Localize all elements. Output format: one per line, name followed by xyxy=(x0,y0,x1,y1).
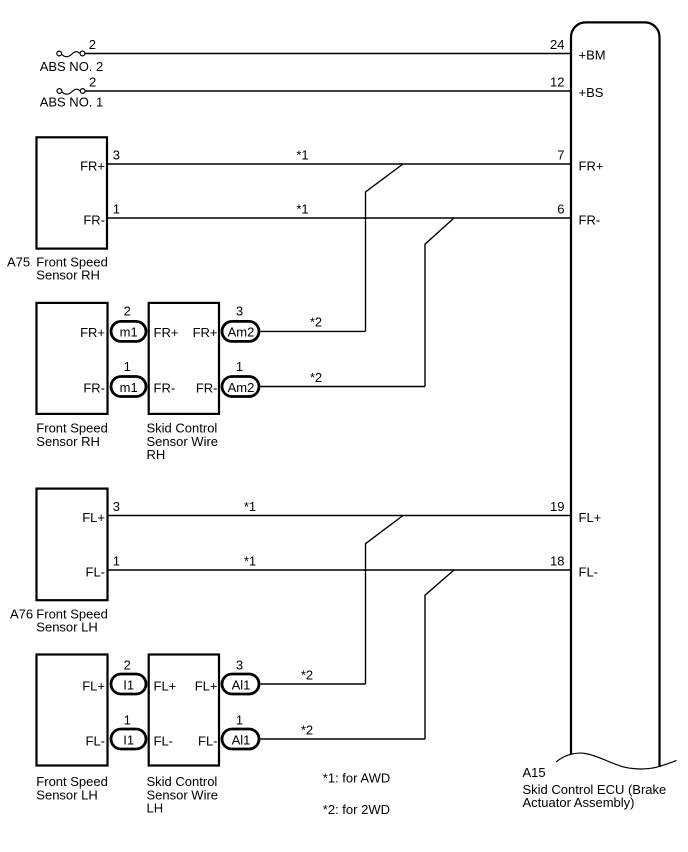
connector A75 Front Speed Sensor RH box xyxy=(37,137,108,248)
svg-text:18: 18 xyxy=(550,553,564,568)
fuse ABS NO. 1 xyxy=(57,89,85,95)
svg-text:Sensor LH: Sensor LH xyxy=(36,787,97,802)
svg-text:FR+: FR+ xyxy=(193,325,218,340)
connector Am2 (FR-) xyxy=(222,377,259,397)
wire A75 FR+ to ECU pin 7 xyxy=(108,163,570,165)
svg-text:FR-: FR- xyxy=(196,380,218,395)
svg-text:FL-: FL- xyxy=(86,733,106,748)
svg-text:3: 3 xyxy=(113,147,120,162)
svg-text:+BM: +BM xyxy=(579,48,606,63)
svg-text:3: 3 xyxy=(236,657,243,672)
svg-text:2: 2 xyxy=(124,304,131,319)
svg-text:FL+: FL+ xyxy=(579,510,602,525)
svg-text:1: 1 xyxy=(236,359,243,374)
svg-text:*1: for AWD: *1: for AWD xyxy=(323,771,390,786)
fuse ABS NO. 2 xyxy=(57,51,85,57)
svg-text:*2: *2 xyxy=(310,370,322,385)
svg-text:7: 7 xyxy=(557,147,564,162)
wire Al1 FL+ to branch node xyxy=(261,683,366,685)
svg-text:Sensor LH: Sensor LH xyxy=(36,620,97,635)
wire fuse ABS NO. 2 to ECU pin 24 (+BM) xyxy=(85,53,570,55)
svg-text:19: 19 xyxy=(550,499,564,514)
svg-text:12: 12 xyxy=(550,74,564,89)
svg-text:m1: m1 xyxy=(120,380,138,395)
svg-text:Am2: Am2 xyxy=(228,380,255,395)
svg-text:FL+: FL+ xyxy=(195,678,218,693)
svg-text:Al1: Al1 xyxy=(232,677,251,692)
svg-text:Al1: Al1 xyxy=(232,732,251,747)
svg-text:2: 2 xyxy=(124,657,131,672)
svg-text:Sensor RH: Sensor RH xyxy=(36,268,100,283)
svg-text:*2: *2 xyxy=(301,723,313,738)
svg-text:FL+: FL+ xyxy=(154,678,177,693)
svg-text:ABS NO. 1: ABS NO. 1 xyxy=(40,94,104,109)
svg-text:FL-: FL- xyxy=(198,733,218,748)
svg-text:FL+: FL+ xyxy=(82,510,105,525)
svg-text:RH: RH xyxy=(147,447,166,462)
svg-text:A15: A15 xyxy=(523,765,546,780)
svg-text:*1: *1 xyxy=(296,148,308,163)
svg-text:FR+: FR+ xyxy=(80,159,105,174)
wire Am2 FR+ to branch node xyxy=(261,330,366,332)
connector Al1 (FL-) xyxy=(222,729,259,749)
svg-text:A76: A76 xyxy=(10,606,33,621)
svg-text:A75: A75 xyxy=(7,254,30,269)
svg-text:I1: I1 xyxy=(123,732,134,747)
svg-text:1: 1 xyxy=(124,359,131,374)
wire branch diagonal FR- (2WD) joining node at (454,218) xyxy=(425,218,454,387)
connector m1 (FR-) xyxy=(111,377,146,397)
svg-text:+BS: +BS xyxy=(579,85,604,100)
connector Al1 (FL+) xyxy=(222,674,259,694)
connector Skid Control Sensor Wire RH box xyxy=(149,303,219,414)
svg-text:FR+: FR+ xyxy=(579,158,604,173)
svg-text:3: 3 xyxy=(236,304,243,319)
wire A75 FR- to ECU pin 6 xyxy=(108,217,570,219)
ECU A15 Skid Control ECU outline xyxy=(571,22,660,767)
svg-text:Actuator Assembly): Actuator Assembly) xyxy=(523,795,635,810)
connector Front Speed Sensor LH box (2WD) xyxy=(37,655,108,766)
svg-text:*2: for 2WD: *2: for 2WD xyxy=(323,802,390,817)
wire fuse ABS NO. 1 to ECU pin 12 (+BS) xyxy=(85,90,570,92)
svg-text:FL+: FL+ xyxy=(82,678,105,693)
svg-text:FL-: FL- xyxy=(579,564,599,579)
svg-text:2: 2 xyxy=(89,37,96,52)
svg-text:Sensor RH: Sensor RH xyxy=(36,434,100,449)
svg-text:FR-: FR- xyxy=(154,380,176,395)
svg-text:1: 1 xyxy=(236,712,243,727)
svg-text:FL-: FL- xyxy=(86,564,106,579)
svg-text:*1: *1 xyxy=(244,499,256,514)
connector m1 (FR+) xyxy=(111,321,146,341)
svg-text:3: 3 xyxy=(113,499,120,514)
wire branch diagonal FR+ (2WD) joining node at (403,164) xyxy=(366,164,404,331)
wire Al1 FL- to branch node xyxy=(261,738,426,740)
svg-text:FR+: FR+ xyxy=(154,325,179,340)
svg-text:FR-: FR- xyxy=(83,213,105,228)
svg-text:m1: m1 xyxy=(120,325,138,340)
svg-text:FR-: FR- xyxy=(83,380,105,395)
svg-text:24: 24 xyxy=(550,37,564,52)
svg-text:6: 6 xyxy=(557,201,564,216)
wire A76 FL- to ECU pin 18 xyxy=(108,569,570,571)
svg-text:*1: *1 xyxy=(296,202,308,217)
wire branch diagonal FL+ (2WD) joining node at (403,515.5) xyxy=(366,516,404,685)
svg-text:FR+: FR+ xyxy=(80,325,105,340)
connector Skid Control Sensor Wire LH box xyxy=(149,655,219,766)
connector A76 Front Speed Sensor LH box xyxy=(37,489,108,601)
svg-text:*1: *1 xyxy=(244,554,256,569)
svg-text:ABS NO. 2: ABS NO. 2 xyxy=(40,59,104,74)
svg-text:1: 1 xyxy=(124,712,131,727)
connector Front Speed Sensor RH box (2WD) xyxy=(37,303,108,414)
wire A76 FL+ to ECU pin 19 xyxy=(108,515,570,517)
svg-text:1: 1 xyxy=(113,553,120,568)
svg-text:I1: I1 xyxy=(123,677,134,692)
connector I1 (FL+) xyxy=(111,674,146,694)
svg-text:*2: *2 xyxy=(310,315,322,330)
svg-text:1: 1 xyxy=(113,201,120,216)
svg-text:FL-: FL- xyxy=(154,733,174,748)
connector Am2 (FR+) xyxy=(222,321,259,341)
wire branch diagonal FL- (2WD) joining node at (454,570) xyxy=(425,570,454,739)
connector I1 (FL-) xyxy=(111,729,146,749)
svg-text:LH: LH xyxy=(147,801,164,816)
svg-text:*2: *2 xyxy=(301,668,313,683)
ECU torn-edge wavy bottom xyxy=(556,753,677,769)
svg-text:2: 2 xyxy=(89,74,96,89)
wire Am2 FR- to branch node xyxy=(261,386,426,388)
svg-text:Am2: Am2 xyxy=(228,325,255,340)
svg-text:FR-: FR- xyxy=(579,212,601,227)
